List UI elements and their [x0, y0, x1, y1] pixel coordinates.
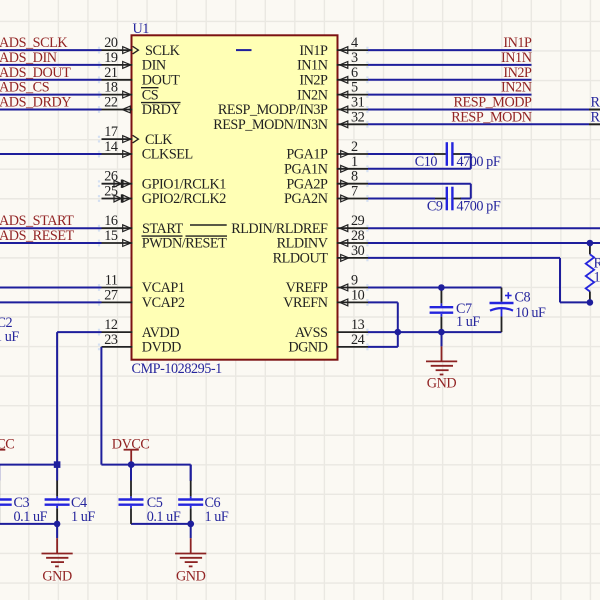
svg-text:RESP_MODN/IN3N: RESP_MODN/IN3N	[213, 117, 328, 133]
svg-text:28: 28	[351, 228, 365, 244]
wire PGA1P to C10	[368, 153, 435, 155]
pin stub RESP_MODN (off-sheet component)	[589, 123, 600, 125]
ground (analog, below C7)	[426, 332, 457, 391]
svg-text:C8: C8	[515, 290, 531, 306]
svg-text:10 uF: 10 uF	[515, 305, 546, 321]
svg-text:GPIO2/RCLK2: GPIO2/RCLK2	[142, 191, 226, 207]
pin 16 START	[98, 213, 184, 237]
power AVCC	[0, 437, 14, 465]
svg-text:19: 19	[104, 50, 118, 66]
wire VREFP	[368, 287, 502, 289]
junction	[438, 329, 445, 336]
svg-text:VCAP1: VCAP1	[142, 280, 185, 296]
wire DVDD vertical	[100, 347, 102, 465]
wire DVCC rail	[101, 464, 190, 466]
svg-text:1 uF: 1 uF	[0, 329, 19, 345]
svg-text:32: 32	[351, 109, 365, 125]
svg-text:ADS_DIN: ADS_DIN	[0, 50, 57, 66]
svg-text:DOUT: DOUT	[142, 73, 180, 89]
capacitor C2 labels (partially off-sheet)	[0, 315, 19, 345]
svg-text:8: 8	[351, 169, 358, 185]
svg-text:5: 5	[351, 80, 358, 96]
svg-text:VREFP: VREFP	[286, 280, 328, 296]
wire C6 drop	[190, 465, 192, 481]
svg-text:GPIO1/RCLK1: GPIO1/RCLK1	[142, 176, 226, 192]
svg-text:CLK: CLK	[145, 132, 173, 148]
svg-text:PGA2N: PGA2N	[284, 191, 328, 207]
svg-text:IN1N: IN1N	[297, 58, 328, 74]
pin 9 VREFP	[286, 273, 369, 297]
svg-text:RLDOUT: RLDOUT	[273, 251, 329, 267]
svg-text:14: 14	[104, 139, 118, 155]
svg-text:0.1 uF: 0.1 uF	[14, 509, 48, 525]
wire RESP_MODP	[368, 109, 589, 111]
wire IN2P	[368, 79, 532, 81]
capacitor C4	[45, 465, 96, 526]
svg-text:20: 20	[104, 35, 118, 51]
pin 21 DOUT	[98, 65, 180, 89]
pin 27 VCAP2	[98, 287, 185, 311]
wire RLDOUT to R8	[560, 301, 590, 303]
pin 32 RESP_MODN/IN3N	[213, 109, 368, 133]
junction	[395, 329, 402, 336]
svg-text:4700 pF: 4700 pF	[457, 154, 501, 170]
svg-text:4700 pF: 4700 pF	[457, 198, 501, 214]
pin 28 RLDINV	[277, 228, 369, 252]
wire ADS_START	[0, 227, 102, 229]
svg-text:IN2N: IN2N	[297, 87, 328, 103]
svg-text:27: 27	[104, 287, 118, 303]
wire ADS_DIN	[0, 64, 102, 66]
wire VCAP1	[0, 287, 102, 289]
svg-text:RESP_MODP/IN3P: RESP_MODP/IN3P	[218, 102, 328, 118]
svg-text:13: 13	[351, 317, 365, 333]
svg-text:6: 6	[351, 65, 358, 81]
wire AVDD vertical	[56, 332, 58, 461]
svg-text:16: 16	[104, 213, 118, 229]
pin 12 AVDD	[98, 317, 179, 341]
svg-text:GND: GND	[42, 568, 72, 584]
svg-text:4: 4	[351, 35, 358, 51]
wire PGA2P to C9	[368, 184, 471, 199]
svg-text:2: 2	[351, 139, 358, 155]
pin 18 CS	[98, 80, 159, 104]
junction	[54, 461, 61, 468]
pin 3 IN1N	[297, 50, 369, 74]
junction	[128, 461, 135, 468]
wire RLDOUT vertical	[559, 258, 561, 303]
pin 5 IN2N	[297, 80, 369, 104]
pin 13 AVSS	[295, 317, 369, 341]
svg-text:RESP_MODN: RESP_MODN	[591, 109, 600, 125]
pin 24 DGND	[288, 332, 368, 356]
wire C5-C6 ground link	[131, 523, 191, 525]
junction	[54, 521, 61, 528]
symbol graphic line inside U1	[236, 49, 252, 51]
wire AVCC rail	[0, 464, 57, 466]
pin 15 PWDN/RESET	[98, 228, 227, 252]
svg-text:23: 23	[104, 332, 118, 348]
pin 17 CLK	[98, 124, 173, 148]
svg-text:PWDN/RESET: PWDN/RESET	[142, 236, 227, 252]
svg-text:ADS_CS: ADS_CS	[0, 80, 50, 96]
svg-text:ADS_DRDY: ADS_DRDY	[0, 95, 71, 111]
svg-text:GND: GND	[176, 568, 206, 584]
capacitor C6	[178, 465, 229, 526]
pin stub RESP_MODP (off-sheet component)	[589, 109, 600, 111]
svg-text:26: 26	[104, 169, 118, 185]
wire CLKSEL	[0, 153, 102, 155]
svg-text:IN1P: IN1P	[503, 35, 532, 51]
pin 1 PGA1N	[284, 154, 368, 178]
svg-text:0.1 uF: 0.1 uF	[147, 509, 181, 525]
pin 8 PGA2P	[286, 169, 368, 193]
pin 6 IN2P	[299, 65, 368, 89]
wire VCAP2	[0, 301, 102, 303]
svg-text:DGND: DGND	[288, 340, 327, 356]
pin 10 VREFN	[283, 287, 368, 311]
svg-text:RLDINV: RLDINV	[277, 236, 329, 252]
svg-text:1 uF: 1 uF	[71, 509, 95, 525]
svg-text:IN1P: IN1P	[299, 43, 328, 59]
capacitor C9	[427, 187, 501, 215]
pin 4 IN1P	[299, 35, 368, 59]
svg-text:1 uF: 1 uF	[205, 509, 229, 525]
svg-text:AVSS: AVSS	[295, 325, 328, 341]
svg-text:RESP_MODP: RESP_MODP	[591, 95, 600, 111]
pin 26 GPIO1/RCLK1	[98, 169, 226, 193]
pin 31 RESP_MODP/IN3P	[218, 95, 369, 119]
pin 2 PGA1P	[286, 139, 368, 163]
svg-text:ADS_START: ADS_START	[0, 213, 74, 229]
wire C3-C4 ground link	[0, 523, 57, 525]
svg-text:RESP_MODP: RESP_MODP	[454, 95, 533, 111]
svg-text:18: 18	[104, 80, 118, 96]
junction	[438, 284, 445, 291]
wire RLDINV	[368, 242, 600, 244]
IC U1 body	[132, 21, 338, 377]
pin 25 GPIO2/RCLK2	[98, 184, 226, 208]
wire RLDOUT horizontal	[368, 257, 560, 259]
pin 23 DVDD	[98, 332, 181, 356]
svg-text:IN2N: IN2N	[501, 80, 532, 96]
wire AVSS	[368, 331, 502, 333]
wire C9 to PGA2N	[368, 198, 435, 200]
capacitor C5	[119, 465, 181, 526]
svg-text:AVDD: AVDD	[142, 325, 180, 341]
svg-text:11: 11	[105, 273, 118, 289]
pin 29 RLDIN/RLDREF	[231, 213, 368, 237]
svg-text:DRDY: DRDY	[142, 102, 181, 118]
pin 30 RLDOUT	[273, 243, 369, 267]
svg-text:U1: U1	[133, 21, 150, 37]
svg-text:29: 29	[351, 213, 365, 229]
svg-text:CMP-1028295-1: CMP-1028295-1	[132, 361, 223, 377]
svg-text:25: 25	[104, 184, 118, 200]
svg-text:ADS_RESET: ADS_RESET	[0, 228, 75, 244]
symbol graphic dash on START row	[190, 224, 227, 226]
wire ADS_CS	[0, 94, 102, 96]
svg-text:CS: CS	[142, 87, 159, 103]
pin 22 DRDY	[98, 95, 181, 119]
svg-text:15: 15	[104, 228, 118, 244]
svg-text:IN2P: IN2P	[299, 73, 328, 89]
resistor R8	[586, 243, 600, 302]
wire AVDD horizontal	[57, 331, 101, 333]
svg-text:9: 9	[351, 273, 358, 289]
svg-text:RLDIN/RLDREF: RLDIN/RLDREF	[231, 221, 328, 237]
svg-text:1: 1	[351, 154, 358, 170]
junction	[587, 299, 594, 306]
wire IN1N	[368, 64, 532, 66]
svg-text:ADS_SCLK: ADS_SCLK	[0, 35, 68, 51]
wire ADS_DRDY	[0, 109, 102, 111]
wire ADS_RESET	[0, 242, 102, 244]
power DVCC	[112, 437, 150, 465]
wire RESP_MODN	[368, 123, 589, 125]
svg-text:24: 24	[351, 332, 365, 348]
svg-text:31: 31	[351, 95, 365, 111]
junction	[587, 240, 594, 247]
ground (below C4)	[42, 524, 73, 584]
wire DGND	[368, 346, 398, 348]
svg-text:START: START	[142, 221, 183, 237]
svg-text:CLKSEL: CLKSEL	[142, 147, 193, 163]
svg-text:1 uF: 1 uF	[456, 314, 480, 330]
capacitor C7	[430, 288, 481, 333]
ground (below C6)	[175, 524, 206, 584]
svg-text:VCAP2: VCAP2	[142, 295, 185, 311]
svg-text:17: 17	[104, 124, 118, 140]
svg-text:VREFN: VREFN	[283, 295, 327, 311]
svg-text:ADS_DOUT: ADS_DOUT	[0, 65, 71, 81]
svg-text:DVDD: DVDD	[142, 340, 181, 356]
wire C10 to PGA1N	[368, 154, 471, 169]
svg-text:RESP_MODN: RESP_MODN	[451, 109, 532, 125]
capacitor C10	[415, 142, 501, 170]
svg-text:22: 22	[104, 95, 118, 111]
svg-text:GND: GND	[427, 375, 457, 391]
pin 14 CLKSEL	[98, 139, 193, 163]
pin 19 DIN	[98, 50, 166, 74]
svg-text:10: 10	[351, 287, 365, 303]
svg-text:21: 21	[104, 65, 118, 81]
svg-text:3: 3	[351, 50, 358, 66]
svg-text:C9: C9	[427, 198, 443, 214]
wire VREFN	[368, 302, 398, 347]
capacitor C8	[490, 288, 547, 333]
capacitor C3	[0, 465, 48, 526]
wire ADS_DOUT	[0, 79, 102, 81]
svg-text:SCLK: SCLK	[145, 43, 181, 59]
svg-text:1M: 1M	[594, 270, 600, 286]
junction	[187, 521, 194, 528]
pin 11 VCAP1	[98, 273, 185, 297]
svg-text:PGA1N: PGA1N	[284, 162, 328, 178]
svg-text:IN1N: IN1N	[501, 50, 532, 66]
svg-text:7: 7	[351, 184, 358, 200]
svg-text:C10: C10	[415, 154, 438, 170]
svg-text:PGA1P: PGA1P	[286, 147, 328, 163]
pin 7 PGA2N	[284, 184, 368, 208]
svg-text:DIN: DIN	[142, 58, 166, 74]
svg-text:12: 12	[104, 317, 118, 333]
svg-text:IN2P: IN2P	[503, 65, 532, 81]
wire ADS_SCLK	[0, 49, 102, 51]
svg-text:PGA2P: PGA2P	[286, 176, 328, 192]
pin 20 SCLK	[98, 35, 181, 59]
wire RLDIN	[368, 227, 600, 229]
wire IN2N	[368, 94, 532, 96]
svg-text:30: 30	[351, 243, 365, 259]
wire IN1P	[368, 49, 532, 51]
